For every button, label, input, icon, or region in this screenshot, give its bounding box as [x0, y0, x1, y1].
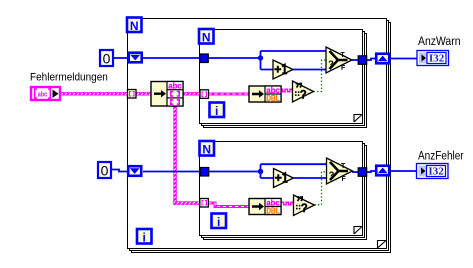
tunnel blue right inner loop2 [358, 168, 367, 177]
wire blue loop1: const to shift register [113, 57, 128, 59]
iteration terminal i inner loop 1 [210, 103, 225, 118]
svg-text:i: i [215, 104, 218, 118]
wire blue loop1: shift register to left tunnel of inner loop 1 [143, 57, 200, 59]
wire pink squiggle loop2: string node to empty-string node [282, 202, 294, 205]
empty string? node loop2 [294, 195, 315, 216]
numeric constant 0 (loop2) [98, 162, 111, 178]
inner for loop 2 corner fold [354, 227, 362, 235]
empty string? node loop1 [293, 81, 314, 102]
numeric constant 0 (loop1) [100, 50, 113, 66]
svg-text:abc: abc [38, 91, 48, 98]
select node loop1 [326, 47, 352, 73]
wire blue loop1: select output to right tunnel, shift register, indicator [352, 59, 417, 61]
inner for loop 2 border [200, 142, 367, 240]
wire pink string: loop2 tunnel to string node (jog) [209, 203, 250, 207]
shift register left terminal loop1 [129, 53, 142, 63]
svg-text:F: F [342, 176, 347, 183]
wire green boolean loop1: empty-string to select selector [314, 60, 327, 92]
tunnel blue left inner loop2 [200, 168, 209, 177]
outer for loop corner fold [378, 241, 387, 249]
count terminal N inner loop 2 [200, 141, 215, 156]
wire blue loop2: const to shift register (with jog) [111, 170, 127, 172]
svg-text:?: ? [301, 203, 308, 215]
svg-text:T: T [341, 52, 346, 59]
svg-text:DBL: DBL [266, 207, 280, 216]
wire blue loop1: tunnel to junction and select inputs [208, 51, 327, 70]
iteration terminal i inner loop 2 [212, 214, 227, 229]
svg-text:N: N [202, 30, 211, 44]
iteration terminal i outer loop [137, 229, 152, 244]
string match node loop1 [249, 85, 281, 103]
svg-text:0: 0 [103, 50, 111, 66]
indicator AnzFehler I32 [417, 164, 449, 179]
index array node (outer loop) [151, 81, 183, 106]
tunnel array inner loop2 (auto-index) [200, 199, 209, 208]
tunnel blue left inner loop1 [200, 54, 209, 63]
svg-text:AnzFehler: AnzFehler [418, 150, 464, 163]
svg-text:?: ? [328, 59, 334, 69]
count terminal N inner loop 1 [199, 29, 214, 44]
svg-text:i: i [217, 215, 220, 229]
select node loop2 [327, 158, 353, 184]
indicator AnzWarn I32 [417, 51, 449, 66]
tunnel array inner loop1 (auto-index) [200, 90, 209, 99]
count terminal N outer loop [127, 18, 142, 33]
svg-text:I32: I32 [429, 54, 445, 65]
tunnel array outer loop (auto-index) [128, 90, 137, 99]
wire blue loop2: tunnel to junction and select inputs [209, 164, 327, 178]
outer for loop border [128, 19, 391, 253]
svg-text:F: F [341, 65, 346, 72]
wire pink array: branch down to inner loop2 tunnel [174, 106, 200, 205]
svg-text:?: ? [300, 90, 307, 102]
svg-text:I32: I32 [428, 167, 444, 178]
tunnel blue right inner loop1 [358, 56, 367, 65]
inner for loop 1 corner fold [354, 115, 362, 123]
wire pink array: control to outer tunnel [61, 92, 128, 95]
svg-text:0: 0 [101, 162, 109, 178]
shift register right terminal loop1 [376, 54, 389, 64]
inner for loop 1 border [200, 30, 367, 128]
svg-text:?: ? [329, 170, 335, 180]
wire pink array: index node to inner loop1 tunnel [183, 92, 200, 95]
string array control Fehlermeldungen [31, 87, 60, 100]
wire blue loop2: shift register to left tunnel of inner loop 2 [143, 171, 201, 173]
wire green boolean loop2: empty-string to select selector [315, 172, 328, 205]
wire pink squiggle loop1: string node to empty-string node [281, 89, 293, 92]
junction node loop1 [258, 55, 263, 60]
increment +1 node loop2 [274, 169, 294, 188]
svg-text:N: N [202, 142, 211, 156]
string match node loop2 [249, 198, 281, 216]
increment +1 node loop1 [273, 60, 293, 79]
wire pink string: loop1 tunnel to string node [209, 93, 250, 96]
svg-text:AnzWarn: AnzWarn [418, 36, 461, 49]
svg-text:i: i [143, 230, 146, 244]
svg-text:Fehlermeldungen: Fehlermeldungen [30, 71, 108, 84]
svg-text:DBL: DBL [266, 94, 280, 103]
svg-text:T: T [341, 163, 346, 170]
svg-text:N: N [130, 19, 139, 33]
junction node loop2 [258, 169, 263, 174]
svg-text:abc: abc [168, 81, 182, 91]
wire pink array: outer tunnel to index node [136, 92, 151, 95]
wire blue loop2: select output to right tunnel, shift register, indicator [352, 171, 417, 172]
shift register left terminal loop2 [128, 166, 141, 176]
shift register right terminal loop2 [376, 166, 389, 176]
